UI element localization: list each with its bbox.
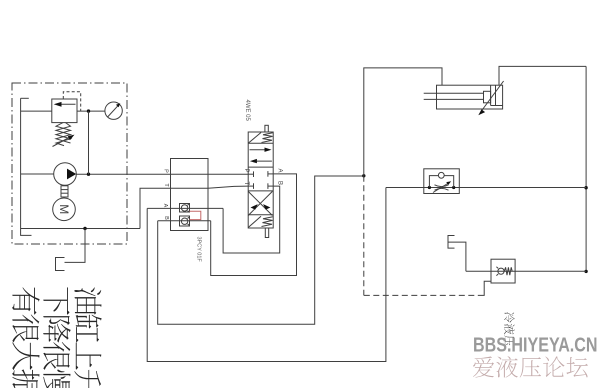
cylinder rod-end gland — [491, 85, 503, 105]
svg-text:T: T — [163, 183, 169, 187]
wire: right main column — [585, 66, 587, 271]
test fitting bracket — [448, 236, 466, 272]
node: relief/pump junction — [87, 109, 90, 112]
FC1 check ball — [438, 172, 444, 178]
watermark 爱液压论坛 — [473, 356, 588, 377]
svg-text:BBS.HIYEYA.CN: BBS.HIYEYA.CN — [473, 335, 598, 357]
directional valve DV1 body — [248, 132, 273, 228]
FC1 bypass check loop — [429, 176, 453, 188]
check valve CV1 (upper) — [180, 204, 190, 213]
wire: T line through manifold to valve (sloped) — [171, 186, 249, 188]
wire: rod-end port riser — [499, 66, 586, 85]
svg-text:M: M — [57, 204, 71, 214]
wire: relief valve to tank column — [21, 110, 52, 112]
check valve CV2 (lower) — [180, 216, 190, 226]
coupling pump-motor — [61, 186, 68, 197]
small vertical maker text (rotated) — [504, 312, 515, 346]
spring a (top box) — [262, 133, 273, 143]
node: FC1 left — [428, 186, 431, 189]
wire: valve right lower port route — [223, 186, 280, 253]
manifold block — [171, 159, 209, 231]
check valve CV3 body — [491, 259, 515, 283]
svg-text:3PCY 01F: 3PCY 01F — [196, 237, 202, 263]
cylinder diagonal arrow — [478, 81, 503, 115]
relief valve pilot line (dashed) — [63, 92, 80, 111]
center position blocked ports — [248, 171, 273, 189]
motor M1 — [53, 198, 76, 221]
svg-text:P: P — [243, 169, 249, 173]
svg-text:A: A — [277, 169, 283, 173]
relief valve spring — [56, 123, 71, 146]
wire: throttle through line — [386, 187, 586, 189]
svg-text:P: P — [163, 169, 169, 173]
cylinder piston — [484, 91, 491, 103]
wire: T return riser — [140, 188, 171, 228]
pump P1 — [54, 163, 77, 186]
CV3 spring — [504, 267, 512, 275]
wire: fitting to check valve — [466, 270, 491, 272]
wire: B line — [158, 220, 211, 222]
svg-text:B: B — [163, 216, 169, 220]
node: tank line junction — [83, 227, 86, 230]
node: check line junction — [584, 270, 587, 273]
cylinder CYL1 body — [437, 85, 503, 109]
throttle-check valve FC1 body — [424, 169, 460, 194]
solenoid a (top box diagonal) — [248, 133, 261, 144]
wire: inner U route manifold B to valve right upper port — [211, 174, 297, 276]
spring b (bottom box) — [262, 217, 273, 227]
pressure gauge G1 — [105, 102, 122, 119]
node: cylinder cap-line / pilot junction — [362, 174, 365, 177]
wire: outer U route A to throttle valve — [147, 188, 386, 362]
tank column wire (left) — [21, 98, 29, 228]
note text (rotated): fault description — [12, 287, 101, 388]
svg-text:T: T — [243, 182, 249, 186]
relief valve adjust arrow — [53, 135, 75, 147]
valve section dividers — [248, 143, 273, 215]
relief valve flow arrow — [54, 102, 76, 107]
power unit enclosure (dash-dot box) — [12, 83, 127, 244]
wire: suction line — [21, 173, 54, 175]
svg-text:A: A — [162, 204, 168, 208]
wire: CV3 outlet to right column — [491, 270, 586, 272]
wire: riser to cylinder cap side — [364, 68, 442, 176]
arrows position 3 (crossed) — [248, 191, 272, 215]
strainer bracket — [56, 258, 65, 271]
node: FC1 right — [452, 186, 455, 189]
wire: tank bottom line — [21, 228, 140, 230]
node: throttle line junction — [584, 186, 587, 189]
wire: drain to suction strainer — [65, 229, 86, 263]
red pilot bridge between check valves — [190, 211, 201, 219]
wire: relief valve outlet to gauge — [77, 110, 105, 112]
wire: middle U route B to cylinder junction — [158, 176, 364, 324]
FC1 adjust arrow — [433, 181, 451, 192]
solenoid b (bottom box diagonal) — [248, 216, 261, 227]
node: pump outlet junction — [87, 173, 90, 176]
wire: A line — [147, 207, 223, 209]
svg-text:4WE 05: 4WE 05 — [244, 100, 250, 122]
svg-text:B: B — [277, 181, 283, 185]
CV3 ball and seat — [496, 267, 504, 276]
wire: pressure line P to valve — [76, 173, 248, 175]
tank hook (left) — [21, 229, 32, 236]
pilot dashed drop line — [363, 176, 365, 296]
pilot dashed run line — [364, 294, 481, 296]
arrows position 1 (parallel) — [250, 148, 272, 164]
wire: gauge riser — [88, 111, 90, 174]
valve top pin — [265, 125, 268, 132]
cylinder piston rod — [424, 93, 484, 99]
relief valve V1 body — [52, 99, 77, 123]
FC1 throttle arcs — [435, 185, 449, 190]
pilot step into check valve — [481, 281, 492, 295]
valve bottom pin — [265, 228, 268, 238]
